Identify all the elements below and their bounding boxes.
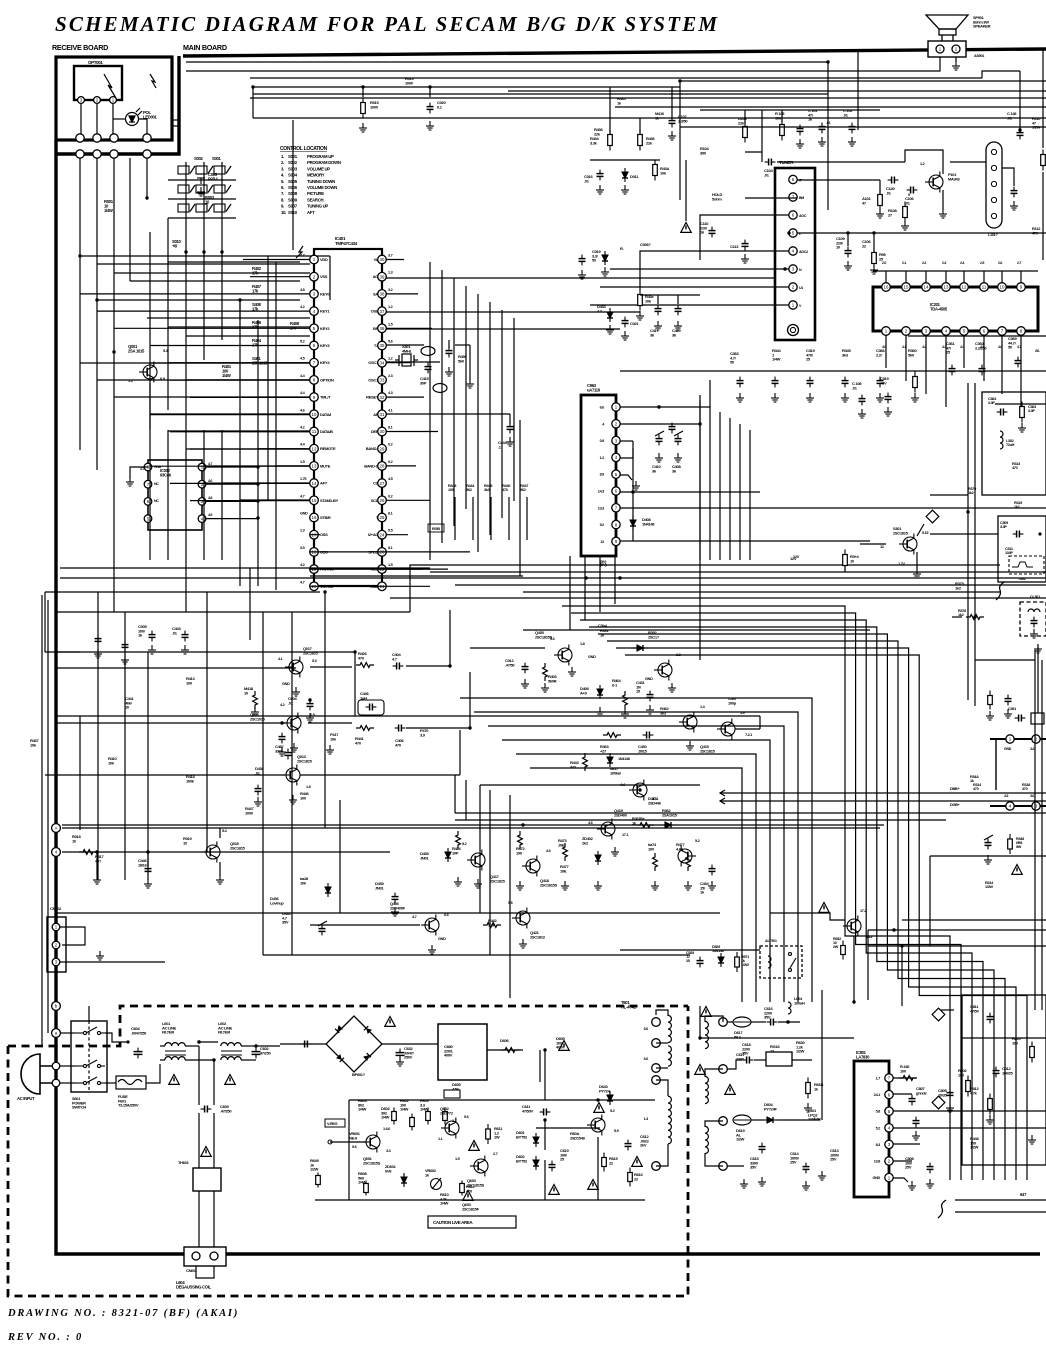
diode D409 <box>597 685 603 699</box>
IC002 pin 1 <box>198 463 206 471</box>
svg-text:1.: 1. <box>281 154 284 159</box>
T601 primary winding c <box>668 1096 671 1144</box>
diode D433 <box>607 308 613 322</box>
svg-text:PICTURE: PICTURE <box>307 191 324 196</box>
wire <box>599 556 601 612</box>
connector pin receive <box>110 134 118 142</box>
wire <box>828 61 1046 63</box>
resistor R441 <box>356 726 374 731</box>
junction <box>197 1040 200 1043</box>
wire <box>386 361 440 363</box>
component X391 <box>1031 713 1044 724</box>
resistor R607 <box>443 1108 448 1125</box>
warning triangle <box>681 223 691 233</box>
IC401 pin 17 <box>310 530 319 539</box>
wire bus audio3 <box>263 954 690 956</box>
ground <box>984 855 992 864</box>
wire <box>199 1041 218 1043</box>
L101 terminal <box>991 149 996 154</box>
wire <box>893 1077 916 1079</box>
wire <box>636 823 654 828</box>
wire <box>705 1153 723 1166</box>
ground <box>606 325 614 334</box>
wire <box>199 1042 214 1046</box>
wire <box>198 1191 200 1247</box>
ground <box>654 321 662 330</box>
svg-text:C021: C021 <box>630 321 639 326</box>
CN901 pin 1 <box>936 45 944 53</box>
AC node <box>52 1079 60 1087</box>
wire matrix row <box>168 179 236 181</box>
junction <box>197 1040 200 1043</box>
junction <box>1018 128 1021 131</box>
wire <box>962 1037 1046 1039</box>
svg-text:1.1: 1.1 <box>438 1137 443 1141</box>
svg-text:4.7: 4.7 <box>412 915 417 919</box>
wire IC401 left <box>186 379 310 381</box>
wire <box>465 780 467 820</box>
wire <box>308 722 352 724</box>
L602 core <box>221 1051 242 1055</box>
wire <box>292 120 294 250</box>
svg-text:GND: GND <box>1004 747 1012 751</box>
svg-text:6.6: 6.6 <box>600 406 605 410</box>
svg-text:5.6: 5.6 <box>388 340 393 344</box>
capacitor C619 <box>549 1161 556 1172</box>
ground <box>870 265 878 274</box>
svg-text:KEY0: KEY0 <box>320 291 330 296</box>
wire bundle IC401 right <box>513 318 515 501</box>
svg-text:30: 30 <box>380 429 385 434</box>
wire <box>620 406 710 408</box>
wire <box>196 1266 214 1278</box>
svg-text:VOLUME UP: VOLUME UP <box>307 166 330 171</box>
svg-text:15: 15 <box>312 498 317 503</box>
wire IC201 top <box>925 271 927 283</box>
wire <box>628 1168 633 1187</box>
power area dashed boundary 2 <box>8 1006 688 1296</box>
svg-text:10.: 10. <box>281 210 286 215</box>
wire <box>995 403 1046 405</box>
wire bus <box>720 800 1046 802</box>
svg-text:5.6: 5.6 <box>464 1115 469 1119</box>
wire <box>449 610 451 666</box>
wire feeder <box>96 300 98 470</box>
svg-text:5.2: 5.2 <box>876 1126 881 1130</box>
wire <box>744 110 746 124</box>
wire feeder <box>167 262 169 410</box>
wire <box>821 1120 823 1172</box>
svg-text:11: 11 <box>982 285 987 290</box>
ground <box>216 875 224 884</box>
svg-text:A: A <box>55 826 58 831</box>
resistor R43A <box>653 160 658 181</box>
transistor Q604 2SD1548 <box>587 1115 605 1136</box>
wire <box>893 1178 908 1182</box>
relay coil <box>768 956 771 968</box>
junction <box>543 1048 546 1051</box>
IC201 pin 11 <box>980 283 989 292</box>
capacitor C012 <box>522 663 529 674</box>
svg-text:13: 13 <box>944 285 949 290</box>
IC401 pin 37 <box>378 307 387 316</box>
svg-text:RECEIVE BOARD: RECEIVE BOARD <box>52 43 108 52</box>
wire <box>386 277 775 279</box>
junction <box>256 499 259 502</box>
page connector squiggle <box>996 582 1004 600</box>
ground <box>96 951 104 960</box>
wire <box>754 1059 766 1061</box>
wire <box>572 647 640 649</box>
wire <box>951 572 953 617</box>
switch contact slash <box>208 166 213 174</box>
svg-text:4.1: 4.1 <box>278 657 283 661</box>
wire <box>868 929 1046 931</box>
transistor Q019 2SC1815 <box>202 842 220 863</box>
wire <box>454 775 456 813</box>
IC801 pin 1 <box>885 1173 893 1181</box>
svg-text:3.2: 3.2 <box>388 288 393 292</box>
wire IC401 right stub <box>386 396 424 398</box>
svg-text:4.2: 4.2 <box>280 703 285 707</box>
junction <box>826 60 829 63</box>
CN963 pin 4 <box>612 453 620 461</box>
svg-text:NC: NC <box>154 482 159 486</box>
svg-text:3.4: 3.4 <box>1030 747 1034 751</box>
capacitor C406 <box>395 725 406 732</box>
svg-text:4.5: 4.5 <box>388 477 393 481</box>
svg-text:D011: D011 <box>630 174 639 179</box>
wire <box>700 1037 854 1039</box>
svg-text:1.75: 1.75 <box>300 477 306 481</box>
svg-text:0.2: 0.2 <box>388 443 393 447</box>
warning triangle <box>169 1075 179 1085</box>
capacitor C104 <box>765 159 776 166</box>
wire <box>406 727 470 729</box>
svg-text:BP601?: BP601? <box>352 1072 366 1077</box>
svg-text:CAUTION LIVE AREA: CAUTION LIVE AREA <box>433 1220 474 1225</box>
CN963 pin 7 <box>612 504 620 512</box>
IC401 pin 9 <box>310 393 319 402</box>
arrow mark <box>720 798 725 804</box>
junction <box>966 510 969 513</box>
wire <box>386 328 620 330</box>
junction <box>846 231 849 234</box>
wire staircase bundle <box>562 606 950 1180</box>
junction <box>251 85 254 88</box>
wire <box>777 161 905 163</box>
wire <box>894 930 896 990</box>
wire feeder <box>79 256 81 450</box>
IC002 pin 5 <box>144 515 152 523</box>
wire bus <box>146 158 148 198</box>
wire bundle vertical <box>699 400 701 560</box>
wire bus <box>253 117 1046 119</box>
wire <box>329 256 331 300</box>
capacitor R345 <box>842 377 849 388</box>
wire bus <box>615 106 1046 108</box>
svg-text:4.7: 4.7 <box>208 462 212 466</box>
capacitor C434 <box>319 925 326 936</box>
ground <box>674 321 682 330</box>
svg-text:64?: 64? <box>1020 1192 1027 1197</box>
connector CN002 <box>47 917 66 972</box>
wire <box>857 49 859 130</box>
wire IC401 left <box>310 551 470 553</box>
warning triangle <box>725 1085 735 1095</box>
ground <box>466 379 474 388</box>
wire <box>105 1033 128 1042</box>
switch contact slash <box>226 185 231 193</box>
capacitor C529 <box>697 957 704 968</box>
svg-text:MUTE: MUTE <box>320 463 331 468</box>
svg-text:DRAWING NO. : 8321-07 (B: DRAWING NO. : 8321-07 (BF) (AKAI) <box>7 1308 239 1319</box>
svg-text:DATA/B: DATA/B <box>320 429 333 434</box>
resistor R3A <box>988 691 993 710</box>
IC401 pin 15 <box>310 496 319 505</box>
svg-text:8.: 8. <box>281 197 284 202</box>
wire bundle IC401 right <box>501 310 503 518</box>
svg-text:17.1: 17.1 <box>652 797 658 801</box>
wire IC401 left <box>222 413 310 415</box>
wire <box>929 856 931 946</box>
svg-text:1.2: 1.2 <box>600 456 605 460</box>
ground <box>736 393 744 402</box>
transistor Q406 2SD400 <box>421 915 439 936</box>
wire <box>299 262 301 300</box>
speaker connector CN901 <box>928 41 966 57</box>
connector pin main <box>143 150 151 158</box>
wire matrix row <box>168 217 236 219</box>
wire <box>699 395 701 424</box>
wire <box>454 497 456 540</box>
wire left rail inner <box>41 595 43 1047</box>
wire <box>930 533 998 535</box>
wire <box>657 295 659 304</box>
IC401 pin 30 <box>378 427 387 436</box>
connector CN602 <box>184 1247 226 1266</box>
svg-text:C113: C113 <box>730 244 739 249</box>
wire IC201 top <box>963 271 965 283</box>
resistor R474 <box>653 853 658 871</box>
capacitor C110 <box>709 227 716 238</box>
capacitor C632 <box>396 1049 405 1060</box>
wire IC401 left <box>204 396 310 398</box>
ground <box>655 453 663 462</box>
resistor R418b <box>253 691 258 709</box>
wire <box>759 716 761 729</box>
junction <box>212 1058 215 1061</box>
CN002 pin 1 <box>52 923 60 931</box>
IC002 pin 3 <box>198 498 206 506</box>
wire <box>310 666 352 668</box>
wire <box>469 345 471 380</box>
wire <box>658 407 660 434</box>
trimmer slash <box>674 431 683 436</box>
wire <box>168 218 300 262</box>
wire feeder <box>239 300 241 320</box>
wire mesh row <box>147 317 310 319</box>
wire <box>632 492 634 541</box>
capacitor C439 <box>392 893 399 904</box>
ground <box>848 137 856 146</box>
svg-text:6.: 6. <box>281 185 284 190</box>
T601 primary pin <box>652 1076 661 1085</box>
wire matrix column <box>185 162 187 252</box>
diode D436 <box>325 883 331 897</box>
wire <box>386 294 700 296</box>
svg-text:R403560R: R403560R <box>548 674 557 683</box>
capacitor C391 <box>1015 715 1026 722</box>
ground <box>741 254 749 263</box>
IC201 pin 14 <box>922 283 931 292</box>
transistor Q017 2SC1815 <box>285 657 303 678</box>
IC201 pin 8 <box>1017 327 1026 336</box>
node A A <box>52 824 61 833</box>
board link pin 4 <box>1006 802 1014 810</box>
wire to IF can <box>950 161 986 163</box>
svg-text:MEMORY: MEMORY <box>307 173 325 178</box>
svg-text:REMOTE: REMOTE <box>320 446 336 451</box>
svg-text:12: 12 <box>880 545 884 549</box>
IC201 pin 3 <box>922 327 931 336</box>
transistor Q602 2SD772 <box>441 1118 459 1139</box>
capacitor C417 <box>655 305 662 316</box>
ground <box>908 1181 916 1190</box>
svg-text:(5V): (5V) <box>600 559 607 564</box>
IC201 pin 9 <box>1017 283 1026 292</box>
wire <box>386 344 424 346</box>
ground <box>911 393 919 402</box>
IC002 pin 8 <box>144 463 152 471</box>
svg-text:14.2: 14.2 <box>866 935 872 939</box>
T601 primary pin <box>652 1018 661 1027</box>
wire IC201 top <box>1020 271 1022 283</box>
fusible resistor D619 <box>733 1115 751 1125</box>
ground <box>391 907 399 916</box>
junction <box>308 698 311 701</box>
wire <box>1037 645 1039 713</box>
wire <box>893 1093 912 1095</box>
svg-text:C43010/15: C43010/15 <box>638 744 648 753</box>
svg-text:37: 37 <box>380 309 385 314</box>
svg-text:PROGRAM DOWN: PROGRAM DOWN <box>307 160 341 165</box>
wire IC201 drop <box>885 352 887 368</box>
svg-text:AG: AG <box>373 274 379 279</box>
wire <box>139 119 147 134</box>
wire <box>620 540 633 542</box>
ground <box>802 1181 810 1190</box>
junction <box>238 298 241 301</box>
diode D529 <box>718 953 724 967</box>
svg-text:2.6: 2.6 <box>998 261 1002 265</box>
wire <box>610 159 686 161</box>
svg-text:5.3: 5.3 <box>312 659 317 663</box>
wire <box>940 1009 954 1011</box>
ground <box>858 409 866 418</box>
resistor R110 <box>1041 150 1046 171</box>
switch contact slash <box>190 185 195 193</box>
svg-text:VSS: VSS <box>320 274 328 279</box>
svg-text:4.2: 4.2 <box>300 305 305 309</box>
wire staircase bundle <box>607 641 1005 1180</box>
IC401 pin 7 <box>310 358 319 367</box>
wire IC201 drop <box>963 352 965 368</box>
wire <box>955 57 957 62</box>
junction <box>631 490 634 493</box>
wire <box>602 1153 607 1172</box>
wire IC401 left <box>300 499 310 501</box>
ground <box>841 393 849 402</box>
IC801 pin 7 <box>885 1074 893 1082</box>
bridge diode <box>363 1053 371 1061</box>
ground <box>541 683 549 692</box>
wire feeder <box>257 320 259 586</box>
wire bundle IC401 right <box>477 294 479 552</box>
svg-text:5.: 5. <box>281 179 284 184</box>
resistor R3x4 <box>843 550 848 571</box>
wire bus <box>250 97 1046 99</box>
junction <box>584 576 587 579</box>
svg-text:2.0: 2.0 <box>882 261 886 265</box>
wire <box>1042 49 1044 148</box>
svg-text:4.6: 4.6 <box>300 408 305 412</box>
svg-text:.01: .01 <box>826 121 831 125</box>
resistor R103 <box>743 122 748 143</box>
junction <box>254 1044 257 1047</box>
wire IC401 right stub <box>386 431 438 433</box>
wire <box>252 87 254 118</box>
wire <box>147 184 201 198</box>
wire feeder ext <box>221 430 223 560</box>
svg-text:0.2: 0.2 <box>388 460 393 464</box>
svg-text:6.9: 6.9 <box>310 713 315 717</box>
svg-text:KEY2: KEY2 <box>320 326 330 331</box>
wire bus <box>253 93 828 95</box>
wire IC201 drop <box>1020 352 1022 407</box>
wire <box>913 1117 920 1128</box>
wire bundle vertical <box>729 418 731 560</box>
IC002 pin 2 <box>198 480 206 488</box>
capacitor C420 <box>675 305 682 316</box>
ground <box>939 209 947 218</box>
ground <box>684 881 692 890</box>
fuse F601 <box>116 1076 146 1089</box>
svg-text:2.7: 2.7 <box>1017 261 1021 265</box>
diode D391 <box>633 645 647 651</box>
connector pin receive <box>76 134 84 142</box>
wire matrix row <box>168 198 236 200</box>
svg-text:2.1: 2.1 <box>902 261 906 265</box>
wire <box>285 749 292 760</box>
wire matrix column <box>203 162 205 252</box>
wire reg bottom rail <box>315 1199 645 1201</box>
wire IC201 top <box>983 271 985 283</box>
svg-text:C391: C391 <box>1008 707 1016 711</box>
svg-text:14.3: 14.3 <box>598 490 604 494</box>
svg-text:GND: GND <box>282 682 290 686</box>
wire staircase bundle <box>589 627 983 1180</box>
svg-text:OSL: OSL <box>371 309 379 314</box>
wire bus row <box>240 499 310 501</box>
wire IC401 right stub <box>386 534 408 536</box>
wire <box>620 949 760 951</box>
wire IC401 right stub <box>386 293 418 295</box>
wire matrix column <box>221 162 223 252</box>
svg-text:4.6: 4.6 <box>998 345 1002 349</box>
wire <box>640 294 700 296</box>
ground <box>632 481 640 490</box>
